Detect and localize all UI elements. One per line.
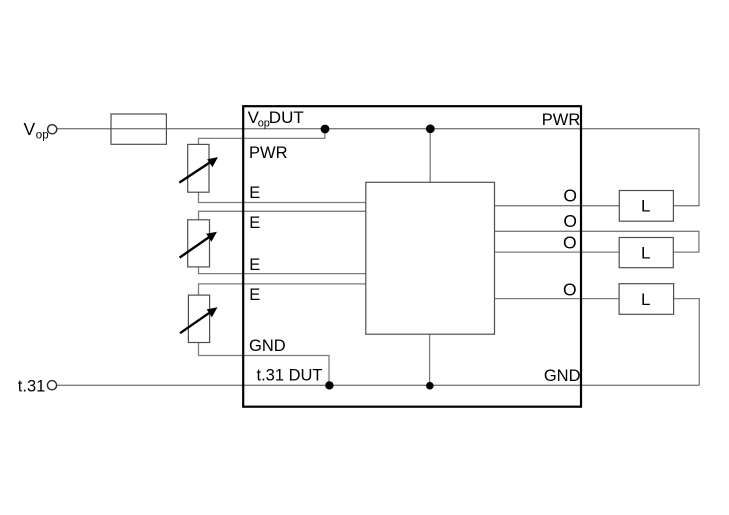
junction node C (t.31 DUT) — [325, 381, 333, 389]
wire from junction A down-left to R1 top — [199, 129, 325, 145]
chip U1 — [366, 182, 495, 334]
svg-text:GND: GND — [544, 367, 581, 385]
inductor L3 — [619, 284, 674, 315]
variable resistor R3 — [180, 295, 218, 342]
junction node D — [426, 382, 434, 390]
variable resistor R1 — [179, 144, 218, 192]
wire chip bottom to bottom rail — [429, 334, 431, 385]
wire V_op main horizontal + PWR loop to L1 right — [58, 129, 700, 206]
svg-text:t.31 DUT: t.31 DUT — [257, 366, 323, 384]
svg-text:O: O — [563, 280, 577, 300]
wire E1 from R1 bottom to chip — [199, 192, 366, 202]
svg-text:E: E — [249, 184, 260, 202]
fuse F1 — [111, 114, 166, 144]
svg-text:E: E — [249, 286, 260, 304]
wire E3 from R2 bottom to chip — [199, 267, 366, 274]
svg-text:L: L — [641, 290, 650, 309]
wire bottom rail t.31 — [57, 384, 699, 386]
svg-text:GND: GND — [249, 337, 286, 355]
svg-text:DUT: DUT — [269, 108, 304, 127]
svg-text:O: O — [563, 186, 577, 206]
svg-text:t.31: t.31 — [18, 378, 46, 396]
terminal t.31 — [47, 381, 56, 390]
variable resistor R2 — [180, 220, 217, 267]
wire E2 from R2 top to chip — [199, 211, 366, 220]
svg-text:O: O — [563, 211, 577, 231]
junction node A — [321, 125, 330, 134]
svg-text:PWR: PWR — [542, 111, 581, 129]
DUT box — [243, 106, 581, 407]
wire E4 from R3 top to chip — [199, 284, 366, 295]
svg-text:V: V — [24, 119, 36, 139]
wire L3 right loop to GND rail — [674, 299, 700, 386]
svg-text:E: E — [249, 256, 260, 274]
wire GND from R3 bottom to bottom rail — [199, 343, 330, 386]
svg-text:op: op — [36, 129, 49, 141]
wire chip pin O4 to L3 left — [495, 298, 620, 300]
svg-text:PWR: PWR — [249, 144, 288, 162]
svg-text:E: E — [249, 214, 260, 232]
wire chip pin O2 loop to L2 right — [495, 231, 699, 252]
svg-text:L: L — [641, 197, 650, 216]
svg-text:O: O — [563, 232, 577, 252]
terminal V_op — [48, 125, 57, 134]
wire chip pin O1 to L1 left — [495, 205, 620, 207]
inductor L2 — [619, 238, 673, 268]
svg-text:L: L — [641, 243, 650, 262]
inductor L1 — [619, 191, 673, 222]
wire node B to chip top — [429, 129, 431, 182]
junction node B — [426, 124, 435, 133]
wire chip pin O3 to L2 left — [495, 251, 620, 253]
